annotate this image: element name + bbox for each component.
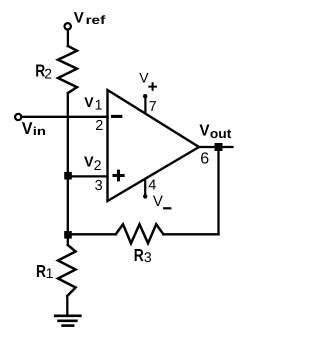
wire to non-inverting input (68, 175, 108, 177)
svg-text:V: V (84, 94, 94, 110)
svg-text:4: 4 (148, 178, 156, 194)
svg-text:V: V (139, 69, 149, 85)
resistor R3 (116, 224, 164, 243)
junction Vout (215, 143, 223, 151)
svg-text:ref: ref (86, 13, 107, 27)
supply V+ pin wire (144, 98, 146, 113)
svg-text:2: 2 (95, 118, 103, 134)
svg-text:V: V (199, 123, 210, 140)
svg-text:V: V (153, 193, 163, 210)
label V+ plus subscript (149, 83, 156, 90)
wire Vref lead (67, 30, 69, 46)
wire output stub (199, 146, 233, 148)
wire Vin to inverting input (21, 116, 107, 118)
svg-text:R: R (134, 245, 144, 265)
op-amp plus marker (114, 171, 123, 180)
svg-text:V: V (74, 10, 84, 27)
svg-text:in: in (33, 126, 46, 138)
op-amp minus marker (113, 115, 121, 118)
op-amp U1 (108, 90, 200, 201)
resistor R2 (58, 46, 77, 93)
svg-text:3: 3 (144, 249, 152, 265)
wire feedback vertical (217, 151, 219, 234)
terminal Vref (65, 23, 71, 29)
svg-text:2: 2 (94, 157, 102, 173)
svg-text:1: 1 (46, 265, 54, 281)
svg-text:7: 7 (149, 99, 157, 115)
label V- minus subscript (164, 207, 170, 209)
wire feedback bottom left lead (68, 233, 116, 235)
wire vertical bus (67, 93, 69, 245)
ground (55, 316, 80, 326)
resistor R1 (58, 245, 76, 296)
svg-text:2: 2 (44, 65, 52, 81)
wire R1 to ground (66, 296, 68, 314)
supply V+ dot (143, 94, 147, 98)
svg-text:3: 3 (95, 178, 103, 194)
junction at non-inverting node (64, 172, 72, 180)
terminal Vin (15, 114, 21, 120)
supply V- dot (143, 194, 147, 198)
junction feedback node (64, 231, 72, 239)
svg-text:6: 6 (200, 151, 209, 168)
supply V- pin wire (144, 179, 146, 195)
svg-text:V: V (84, 155, 94, 171)
svg-text:out: out (210, 126, 232, 141)
svg-text:1: 1 (95, 96, 103, 112)
wire feedback bottom right lead (163, 233, 218, 235)
svg-text:V: V (22, 119, 33, 138)
